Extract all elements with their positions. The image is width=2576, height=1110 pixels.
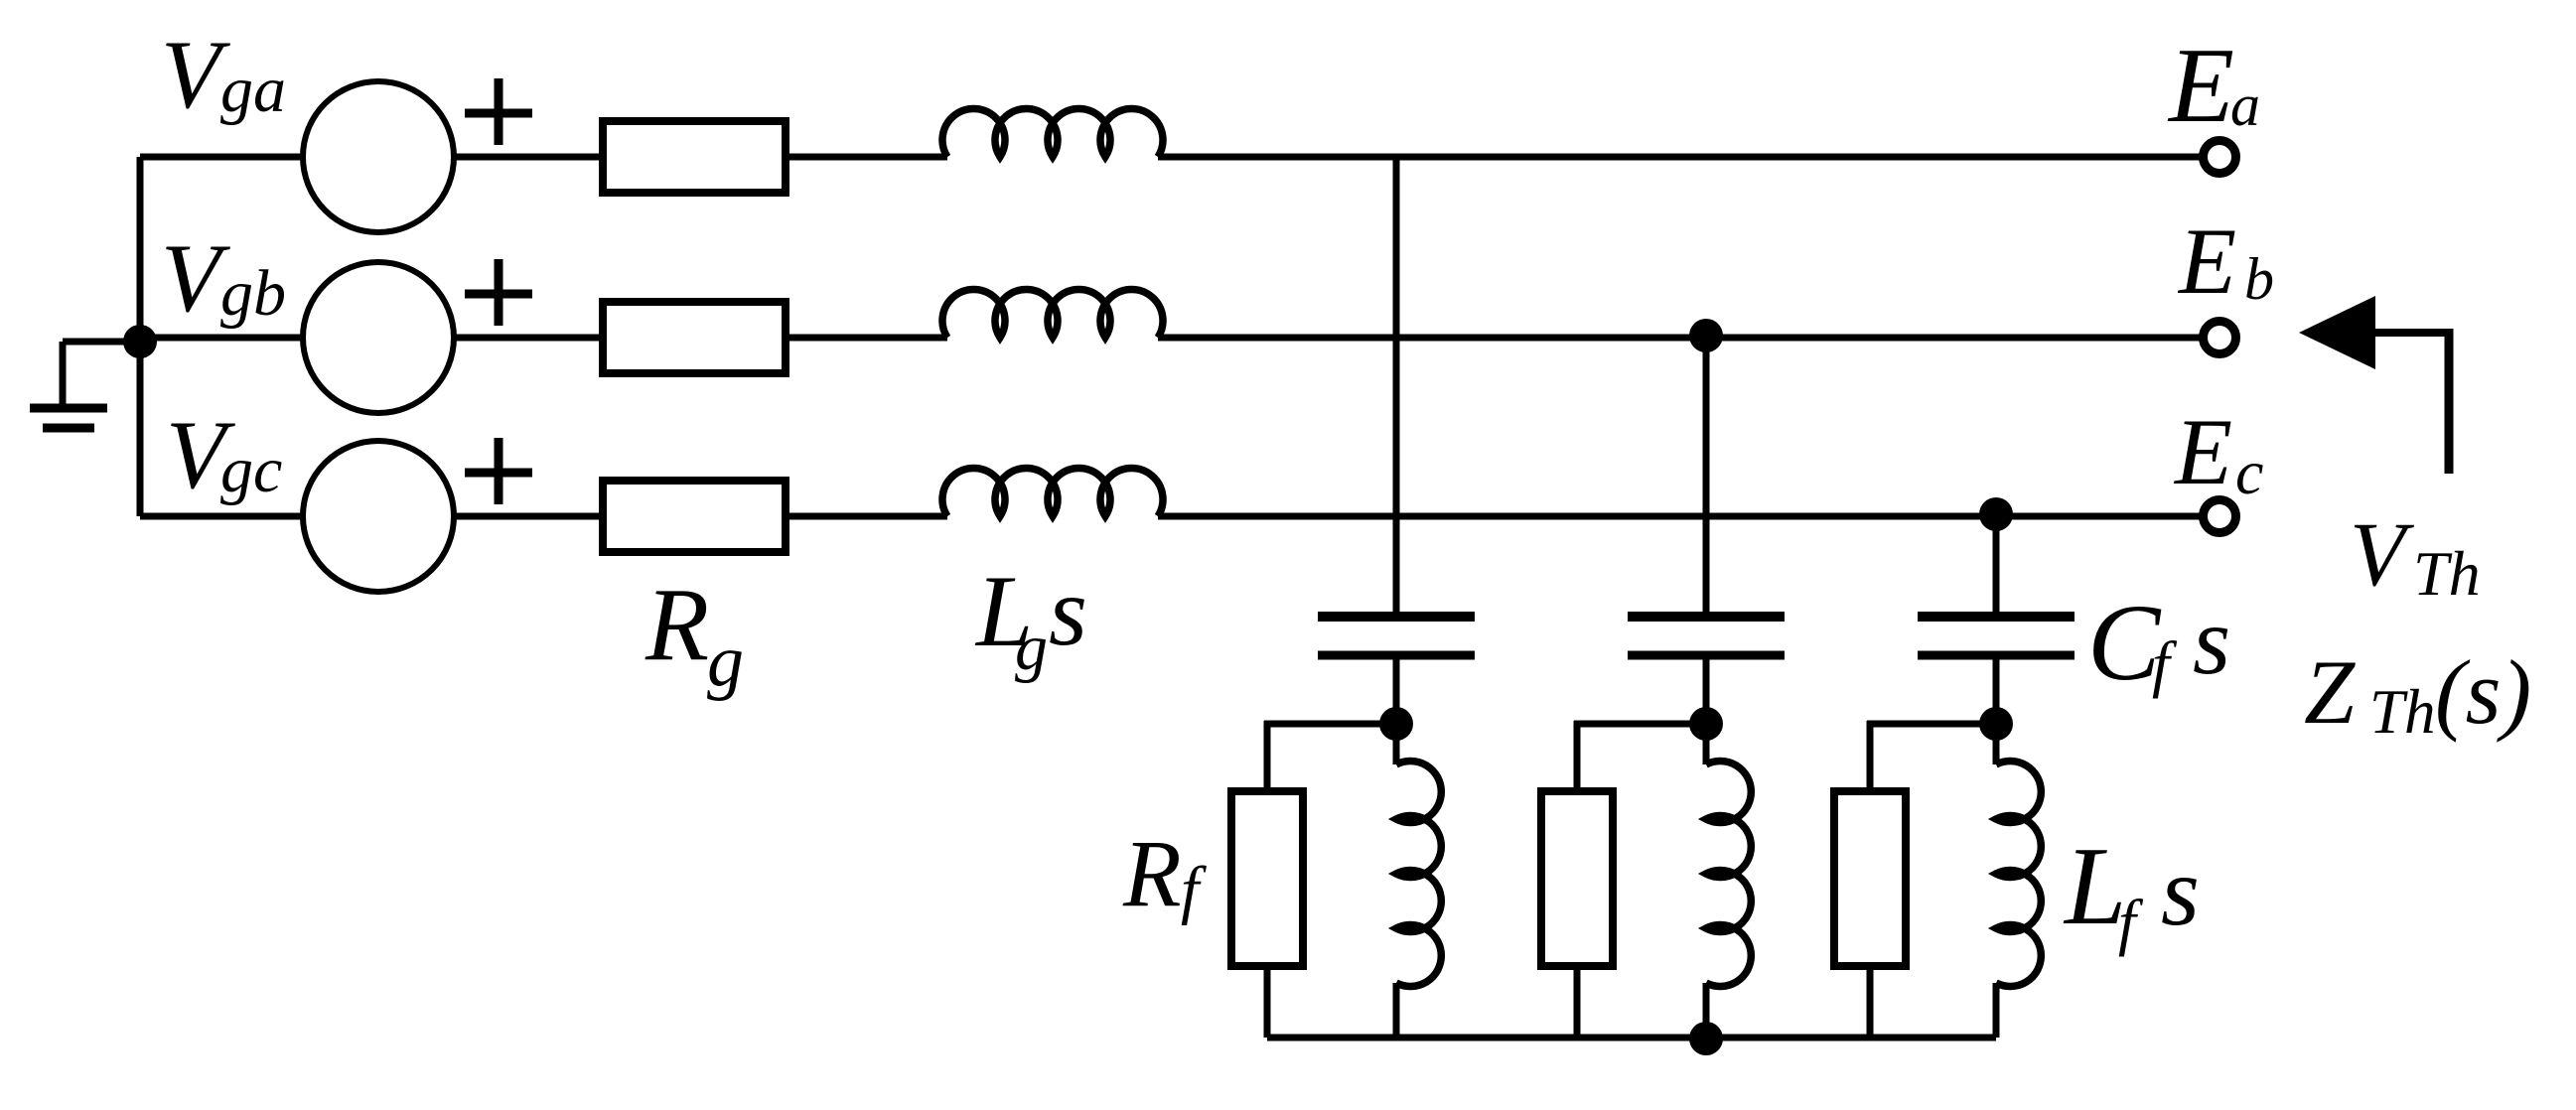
- wire: vertical line phase c to capacitor 3: [1993, 516, 2000, 612]
- svg-text:L: L: [2063, 825, 2126, 948]
- svg-text:a: a: [2230, 72, 2260, 138]
- wire: inductor L_f to bottom bus (branch 2): [1703, 983, 1710, 1038]
- wire: inductor to terminal E_b: [1158, 335, 2201, 342]
- resistor R_g (phase b): [603, 302, 786, 373]
- svg-text:g: g: [707, 621, 744, 702]
- svg-text:ga: ga: [220, 54, 286, 126]
- inductor L_f (branch 3): [1996, 762, 2041, 987]
- node: tap on phase b: [1689, 319, 1723, 352]
- wire: bus to source V_gb: [140, 335, 303, 342]
- svg-text:(s): (s): [2435, 641, 2531, 743]
- wire: vertical line phase b to capacitor 2: [1703, 338, 1710, 612]
- wire: inductor L_f to bottom bus (branch 3): [1993, 983, 2000, 1038]
- svg-text:s: s: [1049, 556, 1087, 666]
- label Vgb: [161, 224, 286, 333]
- wire: node to resistor R_f (branch 2): [1574, 721, 1706, 787]
- label Eb: [2177, 208, 2274, 314]
- wire: bus to source V_ga: [140, 154, 303, 161]
- wire: source to resistor R_g (phase a): [454, 154, 599, 161]
- node: RL junction (branch 3): [1979, 707, 2013, 741]
- wire: node to resistor R_f (branch 3): [1867, 721, 1996, 787]
- terminal E_b: [2204, 322, 2236, 354]
- node: tap on phase c: [1979, 497, 2013, 531]
- label Vgc: [166, 401, 282, 509]
- wire: bottom bus: [1267, 1035, 1996, 1041]
- svg-text:R: R: [1122, 820, 1182, 926]
- wire: source to resistor R_g (phase b): [454, 335, 599, 342]
- svg-text:b: b: [2244, 246, 2274, 312]
- voltage source V_gc: [303, 441, 454, 592]
- wire: vertical line phase a to capacitor 1: [1393, 157, 1400, 612]
- ground: [30, 342, 140, 428]
- wire: capacitor 2 to RL node: [1703, 659, 1710, 764]
- svg-text:V: V: [2350, 503, 2415, 605]
- wire: source to resistor R_g (phase c): [454, 513, 599, 520]
- wire: inductor to terminal E_c: [1158, 513, 2201, 520]
- label Rf: [1122, 820, 1207, 926]
- node: RL junction (branch 1): [1379, 707, 1413, 741]
- arrow V_Th (points left toward E_b): [2299, 296, 2449, 474]
- inductor L_f (branch 2): [1706, 762, 1751, 987]
- node: RL junction (branch 2): [1689, 707, 1723, 741]
- capacitor C_f (branch 1): [1318, 617, 1475, 655]
- inductor L_g (phase b): [942, 289, 1163, 338]
- label Lgs: [974, 555, 1087, 684]
- resistor R_g (phase a): [603, 121, 786, 193]
- polarity plus sign (phase c): [465, 438, 532, 504]
- voltage source V_gb: [303, 262, 454, 413]
- terminal E_a: [2204, 141, 2236, 174]
- svg-text:c: c: [2235, 437, 2263, 507]
- wire: resistor R_f to bottom bus (branch 1): [1264, 970, 1271, 1038]
- svg-text:s: s: [2161, 836, 2200, 946]
- capacitor C_f (branch 2): [1628, 617, 1785, 655]
- wire: node to resistor R_f (branch 1): [1264, 721, 1396, 787]
- svg-text:Th: Th: [2413, 538, 2481, 609]
- svg-text:s: s: [2193, 588, 2230, 695]
- polarity plus sign (phase b): [465, 259, 532, 326]
- terminal E_c: [2204, 500, 2236, 533]
- svg-text:gc: gc: [220, 434, 282, 506]
- wire: resistor to inductor L_g (phase c): [789, 513, 947, 520]
- resistor R_f (branch 3): [1834, 791, 1906, 966]
- label Ea: [2167, 27, 2260, 145]
- wire: inductor to terminal E_a: [1158, 154, 2201, 161]
- inductor L_g (phase a): [942, 108, 1163, 157]
- label Vga: [161, 21, 286, 129]
- node: neutral junction on left bus: [123, 325, 157, 358]
- inductor L_f (branch 1): [1396, 762, 1441, 987]
- wire: bus to source V_gc: [140, 513, 303, 520]
- svg-text:Th: Th: [2369, 677, 2436, 747]
- wire: resistor to inductor L_g (phase b): [789, 335, 947, 342]
- polarity plus sign (phase a): [465, 78, 532, 145]
- wire: resistor R_f to bottom bus (branch 2): [1574, 970, 1581, 1038]
- label Ec: [2173, 399, 2263, 507]
- svg-text:gb: gb: [220, 257, 286, 330]
- label VTh: [2350, 503, 2481, 609]
- wire: inductor L_f to bottom bus (branch 1): [1393, 983, 1400, 1038]
- node: bottom bus junction: [1689, 1022, 1723, 1055]
- svg-text:E: E: [2167, 27, 2234, 145]
- wire: resistor to inductor L_g (phase a): [789, 154, 947, 161]
- wire: capacitor 3 to RL node: [1993, 659, 2000, 764]
- label Rg: [644, 566, 744, 702]
- wire: capacitor 1 to RL node: [1393, 659, 1400, 764]
- svg-text:R: R: [644, 566, 709, 682]
- resistor R_f (branch 1): [1231, 791, 1303, 966]
- wire: resistor R_f to bottom bus (branch 3): [1867, 970, 1874, 1038]
- svg-text:C: C: [2087, 582, 2162, 703]
- resistor R_g (phase c): [603, 481, 786, 552]
- svg-text:E: E: [2173, 399, 2232, 504]
- svg-text:Z: Z: [2304, 641, 2356, 743]
- label Cfs: [2087, 582, 2230, 703]
- svg-text:E: E: [2177, 208, 2236, 314]
- label Lfs: [2063, 825, 2200, 957]
- resistor R_f (branch 2): [1541, 791, 1613, 966]
- label ZThs: [2304, 641, 2531, 747]
- svg-text:g: g: [1015, 612, 1048, 684]
- capacitor C_f (branch 3): [1918, 617, 2075, 655]
- wire: left bus vertical: [137, 157, 144, 516]
- inductor L_g (phase c): [942, 468, 1163, 516]
- voltage source V_ga: [303, 81, 454, 232]
